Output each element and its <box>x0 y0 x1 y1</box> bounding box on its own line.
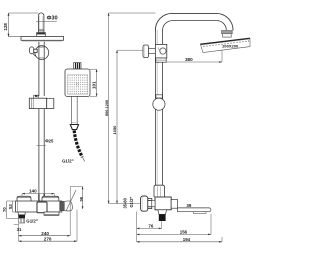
svg-text:31: 31 <box>17 227 22 232</box>
svg-text:35-60: 35-60 <box>123 197 128 208</box>
svg-text:140: 140 <box>29 189 37 194</box>
svg-text:270: 270 <box>44 236 52 241</box>
svg-text:380: 380 <box>185 57 193 62</box>
svg-text:G1/2”: G1/2” <box>26 218 38 223</box>
svg-text:98: 98 <box>78 196 83 201</box>
svg-text:G1/2”: G1/2” <box>129 197 134 208</box>
svg-text:Φ30: Φ30 <box>47 16 58 22</box>
svg-text:53: 53 <box>8 204 13 209</box>
svg-text:800-1200: 800-1200 <box>105 100 109 116</box>
svg-text:1050: 1050 <box>112 125 117 135</box>
svg-text:200X200: 200X200 <box>222 44 239 49</box>
svg-text:76: 76 <box>148 223 153 228</box>
svg-text:Φ25: Φ25 <box>45 139 54 144</box>
svg-text:70: 70 <box>2 207 7 212</box>
svg-text:G1/2”: G1/2” <box>62 159 74 164</box>
svg-text:39: 39 <box>186 203 191 208</box>
svg-text:194: 194 <box>183 237 191 242</box>
svg-text:240: 240 <box>41 231 49 236</box>
svg-text:156: 156 <box>180 229 188 234</box>
svg-text:101: 101 <box>92 81 97 89</box>
svg-text:128: 128 <box>3 23 8 31</box>
